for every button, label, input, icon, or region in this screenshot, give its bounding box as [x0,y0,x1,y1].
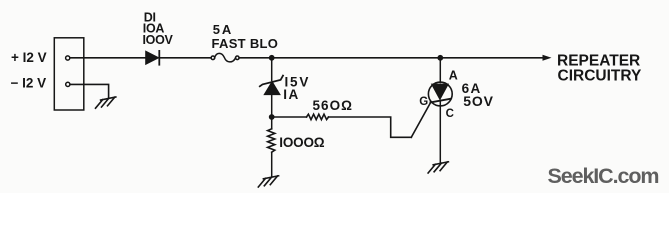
wire: diode to fuse [160,57,211,59]
wire: 560 ohm to SCR gate [329,117,412,137]
svg-text:IOOOΩ: IOOOΩ [279,135,324,150]
arrow to repeater circuitry [543,55,552,61]
svg-text:A: A [449,68,458,82]
zener diode 15V 1A [260,76,283,95]
diode D1 [146,51,160,65]
junction node (zener branch) [269,55,275,61]
connector terminal block [54,38,84,110]
wire: gate diagonal [411,102,430,137]
wire: 1000 ohm to ground [271,152,273,176]
SCR [428,58,452,162]
svg-text:IA: IA [283,87,299,102]
terminal pin +12V [66,56,70,60]
wire: junction to 560 ohm resistor [272,116,307,118]
fuse 5A FAST BLO [211,53,239,62]
wire: rail down to zener [271,58,273,81]
resistor 1000 ohm [268,129,275,152]
wire: fuse to repeater arrow (main rail) [239,57,543,59]
ground (SCR cathode) [428,162,448,173]
svg-text:FAST BLO: FAST BLO [212,36,279,51]
svg-text:− I2 V: − I2 V [11,76,47,91]
wire: zener to junction [271,95,273,117]
svg-text:G: G [419,96,428,108]
resistor 560 ohm [307,114,329,119]
svg-text:SeekIC.com: SeekIC.com [548,164,659,188]
wire: -12V terminal to ground [70,84,109,97]
svg-text:56OΩ: 56OΩ [313,98,354,113]
terminal pin -12V [66,82,70,86]
svg-text:C: C [446,108,454,120]
svg-text:IOOV: IOOV [143,33,174,47]
ground (below 1000 ohm) [258,176,278,187]
svg-text:5OV: 5OV [463,93,493,109]
junction node (SCR anode) [437,55,443,61]
ground (connector -12V return) [96,97,116,108]
wire: +12V terminal to diode [70,57,146,59]
svg-text:CIRCUITRY: CIRCUITRY [558,68,642,85]
wire: junction down to 1000 ohm resistor [271,117,273,129]
junction node (divider) [269,114,275,120]
svg-text:+ I2 V: + I2 V [11,50,47,65]
